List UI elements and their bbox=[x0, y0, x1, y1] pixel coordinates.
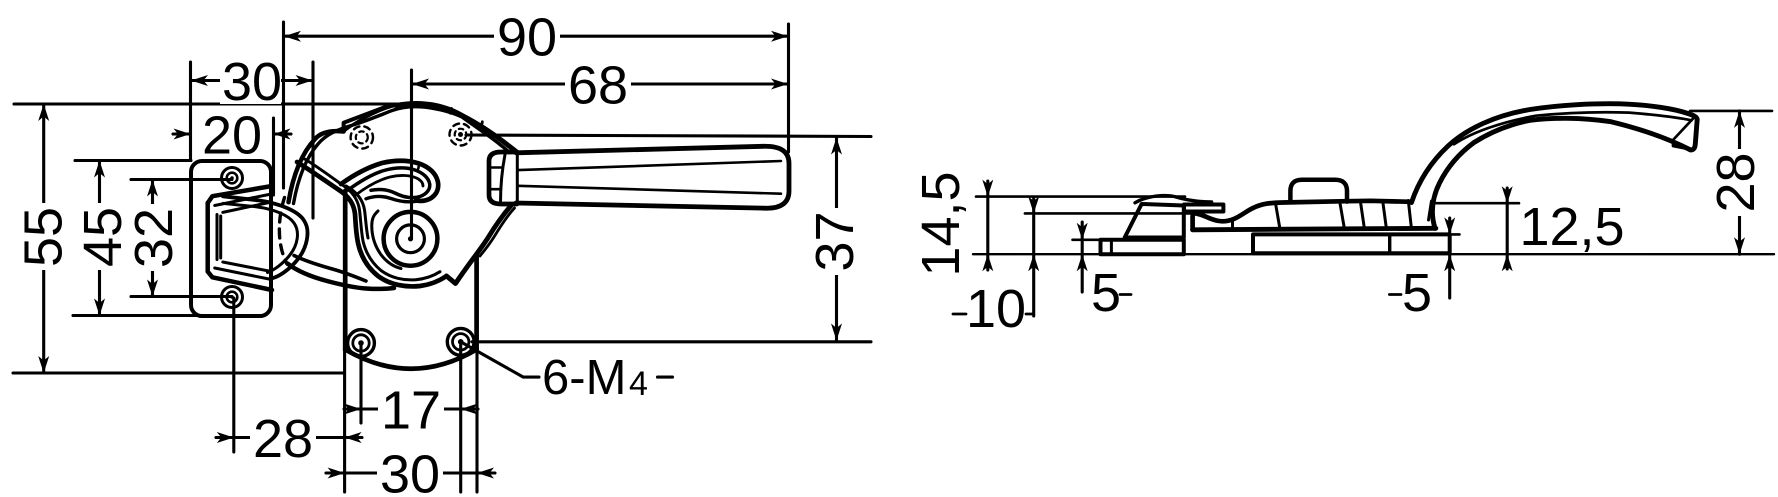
ext line 68 hub bbox=[410, 70, 413, 239]
plate screw top bbox=[222, 168, 243, 189]
arrow 30 left bbox=[191, 75, 208, 86]
label 55 bbox=[19, 203, 68, 270]
dim line 37 bbox=[835, 138, 838, 341]
dim line 45 bbox=[98, 161, 101, 316]
keeper hex left walls bbox=[217, 215, 221, 260]
ext line 45 top bbox=[75, 159, 191, 162]
handle tip bevel bbox=[1673, 117, 1695, 149]
handle neck inner edge and top edge bbox=[1412, 104, 1698, 203]
svg-text:32: 32 bbox=[124, 208, 184, 268]
band tick bbox=[418, 163, 419, 169]
boss neck line bbox=[516, 154, 519, 202]
svg-text:17: 17 bbox=[381, 381, 441, 441]
right view baseline bbox=[973, 253, 1774, 255]
ext line 90-68 right bbox=[787, 24, 790, 152]
ext line 20 right bbox=[272, 118, 275, 195]
top arm inner T3 bbox=[355, 175, 423, 195]
arrow 30b left bbox=[328, 468, 345, 479]
arrow 90 left bbox=[284, 31, 301, 42]
ext line 90 left bbox=[282, 22, 285, 188]
ext line slab left bbox=[343, 350, 346, 492]
handle chamfer line bbox=[1454, 112, 1692, 144]
dim line 28 bottom bbox=[216, 436, 362, 439]
LEFT_VIEW_PART bbox=[191, 103, 789, 368]
slab bottom arc bbox=[345, 350, 476, 369]
keeper tongue bbox=[1184, 205, 1223, 212]
pad hidden dashed edge bbox=[279, 198, 287, 265]
dim line 14.5 bbox=[986, 181, 989, 270]
ext line 32 bottom bbox=[131, 295, 232, 298]
ext line slab right bbox=[475, 350, 478, 492]
ext line 37 top leader bbox=[466, 135, 871, 137]
svg-text:4: 4 bbox=[629, 365, 648, 403]
hook bottom sweep lower bbox=[288, 264, 395, 289]
label 30 top bbox=[220, 56, 281, 104]
arrow 68 right bbox=[771, 79, 788, 90]
pad outer bbox=[223, 196, 307, 278]
svg-text:68: 68 bbox=[568, 56, 628, 116]
ext tick 5 left bbox=[1073, 239, 1101, 242]
pad inner bbox=[223, 203, 297, 272]
keeper bracket left edge bbox=[205, 203, 210, 272]
arrow 90 right bbox=[771, 31, 788, 42]
dim line 32 bbox=[151, 180, 154, 297]
arrow 20 left bbox=[174, 129, 191, 140]
label 20 bbox=[199, 110, 265, 158]
hub inner circle bbox=[397, 225, 425, 253]
ext line 32 top bbox=[131, 178, 232, 181]
crown outer under chamfer bbox=[344, 106, 396, 132]
svg-text:55: 55 bbox=[14, 207, 74, 267]
arrow 32 top bbox=[147, 180, 158, 197]
ext line 55 top bbox=[14, 102, 407, 105]
ext line 45 bottom bbox=[73, 314, 212, 317]
arrow 45 bottom bbox=[94, 299, 105, 316]
arrow 12.5 top bbox=[1502, 186, 1513, 203]
label 32 bbox=[130, 204, 179, 271]
boss crease bbox=[501, 155, 506, 203]
arrow 32 bottom bbox=[147, 280, 158, 297]
dim line 55 bbox=[42, 104, 45, 373]
plate facet lines bbox=[1231, 221, 1234, 229]
leader 6-M4 bbox=[461, 342, 673, 377]
svg-text:28: 28 bbox=[1706, 152, 1766, 212]
svg-text:20: 20 bbox=[202, 106, 262, 166]
handle bottom edge and neck outer edge bbox=[1432, 118, 1690, 228]
dim line 20 bbox=[173, 132, 291, 135]
RIGHT_VIEW_PART bbox=[1101, 104, 1698, 255]
svg-text:14,5: 14,5 bbox=[911, 171, 971, 276]
arrow 5L bottom bbox=[1077, 254, 1088, 271]
label 30 bottom bbox=[377, 449, 443, 497]
arrow 37 bottom bbox=[831, 324, 842, 341]
arrow 5R top bbox=[1444, 217, 1455, 234]
arrow 37 top bbox=[831, 138, 842, 155]
handle foot slant bbox=[1429, 201, 1432, 220]
arrow 12.5 bottom bbox=[1502, 254, 1513, 271]
svg-text:6-M: 6-M bbox=[542, 351, 626, 405]
arrow 14.5 bottom bbox=[982, 254, 993, 271]
ext line 14.5 top bbox=[976, 195, 1185, 198]
arrow 55 top bbox=[38, 104, 49, 121]
ext line 30 right bbox=[311, 62, 314, 218]
body screw left bbox=[348, 330, 375, 357]
mounting plate bbox=[191, 161, 271, 316]
dim line 90 bbox=[284, 35, 788, 38]
dim line 5 right bbox=[1448, 218, 1451, 298]
ext line 10 top bbox=[1025, 212, 1196, 215]
keeper hex bottom slant bbox=[223, 262, 272, 272]
label 68 bbox=[565, 60, 631, 108]
washer pad divider bbox=[1388, 234, 1391, 253]
svg-text:12,5: 12,5 bbox=[1519, 197, 1624, 257]
crown inner edge bbox=[294, 107, 510, 204]
arrow 45 top bbox=[94, 161, 105, 178]
top arm inner T2 spiral return bbox=[348, 168, 430, 198]
ext line 12.5 top bbox=[1435, 202, 1519, 205]
svg-text:30: 30 bbox=[380, 445, 440, 497]
arrow 30 right bbox=[296, 75, 313, 86]
svg-text:37: 37 bbox=[805, 211, 865, 271]
ext line 28 top bbox=[1690, 110, 1772, 113]
keeper top flange inner bbox=[215, 194, 272, 206]
svg-text:30: 30 bbox=[222, 52, 282, 112]
ext tick 5 right bbox=[1424, 233, 1460, 236]
label 28 bottom bbox=[250, 413, 316, 461]
ext line screw17 right bbox=[459, 342, 462, 492]
crown outer right bbox=[396, 103, 516, 151]
ext line 55 bottom bbox=[13, 371, 344, 374]
dim line 30 bbox=[191, 79, 313, 82]
crown step notch ticks bbox=[451, 108, 483, 126]
arrow 20 right bbox=[274, 129, 291, 140]
dim line 10 bbox=[1032, 198, 1035, 316]
dim line 12.5 bbox=[1506, 188, 1509, 269]
label 37 bbox=[811, 208, 860, 275]
keeper bottom bevel and flange bbox=[208, 272, 272, 291]
shaft taper line bottom bbox=[518, 186, 781, 194]
ext line 30 left bbox=[189, 62, 192, 160]
dim line 28 right bbox=[1738, 111, 1741, 254]
arrow 28b right bbox=[345, 432, 362, 443]
connector 10 bbox=[953, 313, 1034, 316]
plate screw bottom bbox=[222, 287, 243, 308]
spiral inner S3 bbox=[346, 186, 368, 238]
keeper bottom flange inner bbox=[215, 268, 272, 280]
arrow 10 top bbox=[1028, 196, 1039, 213]
spiral outer S1 bbox=[297, 162, 447, 286]
slab left edge bbox=[343, 191, 348, 350]
body right edge and notch bbox=[447, 206, 512, 284]
arrow 14.5 top bbox=[982, 180, 993, 197]
curl return lower line bbox=[366, 197, 419, 202]
label 28 right bbox=[1712, 149, 1761, 216]
crown outer left bbox=[289, 131, 344, 202]
label 90 bbox=[494, 12, 560, 60]
hook bottom sweep upper bbox=[294, 256, 366, 282]
ext line screw17 left bbox=[359, 343, 362, 423]
spiral inner S2 bbox=[303, 158, 440, 280]
arrow 17 right bbox=[461, 404, 478, 415]
dash after 5 left bbox=[1120, 293, 1131, 296]
arrow 17 left bbox=[344, 404, 361, 415]
slab right edge bbox=[474, 254, 479, 350]
base strip keeper bbox=[1101, 240, 1184, 255]
label 17 bbox=[378, 385, 444, 433]
shaft taper line top bbox=[518, 161, 781, 170]
svg-text:5: 5 bbox=[1091, 263, 1121, 323]
latch plate tip and top edge bbox=[1193, 201, 1411, 230]
dash before 5 right bbox=[1389, 293, 1401, 296]
dim line 30 bottom bbox=[326, 471, 495, 474]
dashed hole right bbox=[450, 124, 472, 146]
dim line 68 bbox=[412, 82, 788, 85]
handle boss bbox=[489, 152, 517, 204]
hub center dot bbox=[408, 236, 413, 241]
washer pad under plate bbox=[1253, 234, 1450, 253]
hub outer circle bbox=[384, 212, 438, 266]
arrow 30b right bbox=[477, 468, 494, 479]
body edge chamfer bbox=[480, 208, 515, 256]
arrow 68 left bbox=[412, 79, 429, 90]
label 45 bbox=[79, 203, 128, 270]
arrow 28b left bbox=[217, 432, 234, 443]
dim line 17 bbox=[344, 407, 478, 410]
keeper hex top slant bbox=[223, 202, 272, 212]
ext line 37 bottom bbox=[472, 340, 871, 343]
rivet dome on plate bbox=[1290, 180, 1347, 203]
crown top chamfer bbox=[344, 105, 390, 131]
latch plate bottom edge bbox=[1193, 228, 1436, 230]
arrow 28R top bbox=[1734, 111, 1745, 128]
arrow 10 bottom bbox=[1028, 254, 1039, 271]
ext line 28 plate-screw bbox=[232, 298, 235, 452]
svg-text:28: 28 bbox=[253, 409, 313, 469]
dim line 5 left bbox=[1081, 222, 1084, 292]
spiral inner S4 bbox=[372, 211, 401, 269]
svg-text:10: 10 bbox=[966, 279, 1026, 339]
keeper top bevel and flange bbox=[208, 186, 272, 203]
arrow 5L top bbox=[1077, 223, 1088, 240]
arrow 28R bottom bbox=[1734, 237, 1745, 254]
body screw right bbox=[447, 328, 474, 355]
top arm outer T1 bbox=[341, 161, 438, 201]
arrow 5R bottom bbox=[1444, 254, 1455, 271]
svg-text:90: 90 bbox=[497, 8, 557, 68]
handle shaft outline bbox=[516, 146, 789, 208]
keeper dome bbox=[1135, 196, 1212, 203]
arrow 55 bottom bbox=[38, 356, 49, 373]
boss facet lines bbox=[490, 168, 501, 190]
base strip inner line bbox=[1110, 240, 1113, 255]
keeper block bbox=[1125, 204, 1184, 238]
dashed hole left bbox=[351, 126, 373, 148]
svg-text:5: 5 bbox=[1402, 263, 1432, 323]
